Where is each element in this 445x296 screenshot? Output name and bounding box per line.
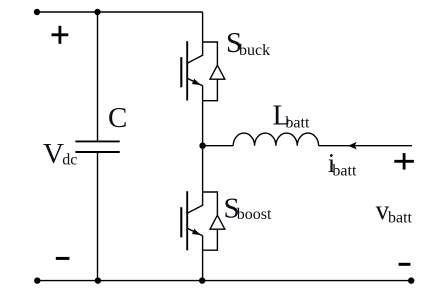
node midpoint junction [199,143,205,149]
node bottom-left terminal [34,277,40,283]
plus sign Vdc positive [52,26,69,44]
plus sign vbatt positive [394,153,414,169]
node junction bottom capacitor [95,277,101,283]
node junction top capacitor [94,9,100,15]
capacitor C bottom plate [75,151,119,153]
wire bottom rail [37,280,411,282]
wire leg collector drop [202,12,204,56]
svg-text:batt: batt [332,163,357,180]
diode D1 antiparallel [203,42,225,101]
node bottom-right terminal [408,277,414,283]
inductor Lbatt [233,133,318,146]
svg-text:C: C [108,102,127,134]
svg-text:batt: batt [388,210,413,227]
wire leg middle [202,86,204,192]
wire leg emitter drop [202,236,204,281]
wire capacitor lower lead [97,152,99,281]
wire midnode to inductor [203,145,234,147]
svg-text:buck: buck [239,42,270,59]
svg-text:dc: dc [62,152,77,169]
minus sign vbatt negative [399,263,411,266]
svg-text:V: V [43,138,64,170]
svg-text:batt: batt [285,114,310,131]
minus sign Vdc negative [56,257,70,260]
capacitor C top plate [75,140,119,142]
wire top rail [37,11,203,13]
diode D2 antiparallel [203,192,225,250]
arrow ibatt direction [348,142,357,150]
node junction bottom leg [199,277,205,283]
node top-left terminal [34,9,40,15]
transistor Q1 Sbuck IGBT [181,41,202,100]
wire capacitor upper lead [97,12,99,141]
transistor Q2 Sboost IGBT [181,191,202,250]
svg-text:boost: boost [237,206,272,223]
wire inductor to battery [319,145,412,147]
